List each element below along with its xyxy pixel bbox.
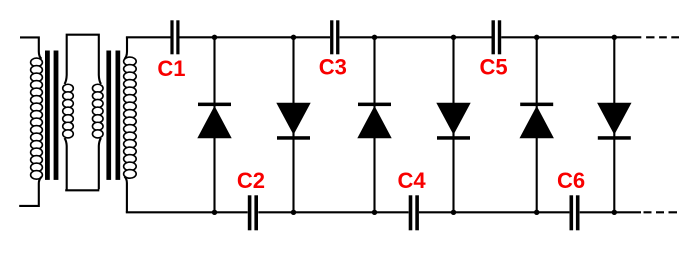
transformer core right pair [106, 51, 111, 180]
node bottom of branch 5 [534, 210, 539, 215]
node bottom of branch 6 [612, 210, 617, 215]
svg-text:C6: C6 [557, 168, 585, 193]
wire branch 5 [536, 37, 538, 212]
svg-text:C5: C5 [479, 55, 507, 80]
svg-text:C2: C2 [237, 168, 265, 193]
node top of branch 6 [612, 35, 617, 40]
wire top rail segment 3 [340, 36, 492, 38]
diode D4 (down) [436, 103, 470, 135]
node top of branch 2 [291, 35, 296, 40]
svg-text:C3: C3 [319, 55, 347, 80]
wire secondary top lead [125, 37, 128, 59]
diode D2 (down) [276, 103, 310, 135]
primary winding (left coil) [31, 58, 43, 179]
wire link winding bottom bridge [65, 138, 102, 190]
diode D5 (up) [520, 103, 553, 107]
wire branch 4 [452, 37, 454, 212]
capacitor C2 [248, 195, 252, 230]
wire bottom rail segment 3 [419, 211, 570, 213]
wire bottom rail segment 2 [258, 211, 408, 213]
capacitor C5 [492, 20, 495, 54]
secondary winding (right coil) [124, 57, 137, 178]
wire top rail segment 4 [501, 36, 641, 38]
wire bottom rail dashed continuation [644, 211, 678, 213]
capacitor C4 [409, 195, 413, 230]
node top of branch 1 [212, 35, 217, 40]
wire primary top lead [20, 37, 42, 58]
link winding left coil [63, 84, 74, 138]
diode D6 (down) [597, 103, 631, 135]
wire branch 3 [373, 37, 375, 212]
node top of branch 5 [534, 35, 539, 40]
capacitor C1 [170, 20, 173, 54]
node top of branch 3 [372, 35, 377, 40]
wire branch 6 [613, 37, 615, 212]
diode D1 (up) [198, 103, 231, 107]
wire bottom rail segment 4 [580, 211, 641, 213]
wire secondary bottom lead [125, 177, 127, 213]
wire primary bottom lead [19, 177, 41, 206]
node bottom of branch 3 [372, 210, 377, 215]
wire branch 2 [292, 37, 294, 212]
node bottom of branch 2 [291, 210, 296, 215]
diode D3 (up) [358, 103, 391, 107]
wire top rail segment 1 [126, 36, 171, 38]
wire bottom rail segment 1 [126, 211, 248, 213]
capacitor C6 [570, 195, 574, 230]
svg-text:C1: C1 [157, 56, 185, 81]
link winding right coil [92, 84, 103, 138]
wire link winding top bridge [65, 35, 102, 84]
wire top rail segment 2 [179, 36, 330, 38]
transformer core left pair [45, 51, 50, 180]
svg-text:C4: C4 [398, 168, 427, 193]
node bottom of branch 4 [451, 210, 456, 215]
wire branch 1 [213, 37, 215, 212]
wire top rail dashed continuation [646, 36, 679, 38]
node top of branch 4 [451, 35, 456, 40]
capacitor C3 [330, 20, 333, 54]
node bottom of branch 1 [212, 210, 217, 215]
